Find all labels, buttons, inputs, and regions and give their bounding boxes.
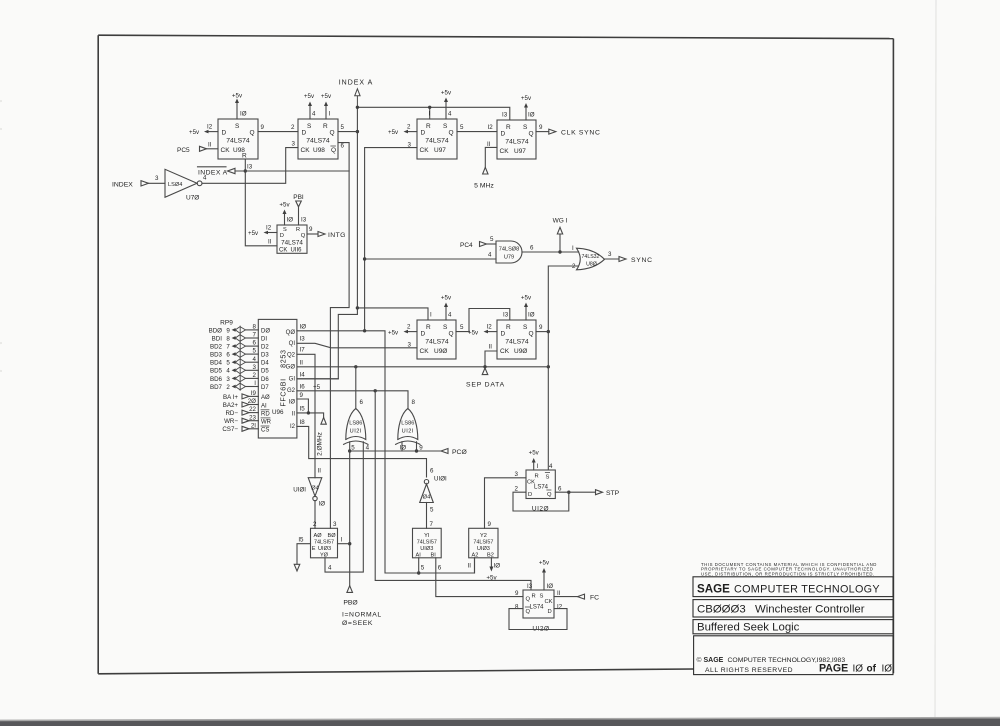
- svg-text:IØ: IØ: [300, 324, 307, 331]
- svg-text:S: S: [546, 475, 550, 481]
- svg-text:9: 9: [226, 327, 230, 334]
- svg-text:S: S: [283, 227, 287, 233]
- svg-text:IØ: IØ: [289, 399, 296, 405]
- svg-text:UIØI: UIØI: [293, 487, 306, 494]
- power +5v U120b S pin10: [539, 560, 553, 591]
- wire U80 in2 vertical bus: [548, 266, 578, 470]
- resistor pack RP9 row BDI: [212, 332, 259, 343]
- svg-text:S: S: [523, 124, 528, 131]
- svg-text:Q2: Q2: [287, 352, 296, 358]
- connector PC0: [441, 449, 467, 456]
- svg-text:S: S: [443, 123, 448, 130]
- svg-text:IØ: IØ: [319, 501, 326, 508]
- wire U101b in from Y1 pin7: [427, 503, 434, 529]
- xor-gate U121a: [344, 409, 368, 445]
- svg-text:I3: I3: [247, 164, 253, 171]
- svg-text:B2: B2: [487, 553, 494, 559]
- svg-text:D7: D7: [261, 385, 269, 391]
- svg-text:9: 9: [539, 124, 543, 131]
- svg-text:5 MHz: 5 MHz: [474, 183, 494, 190]
- svg-text:+5v: +5v: [304, 93, 315, 100]
- svg-text:I3: I3: [300, 336, 306, 343]
- wire Y1 A1 pin5 stub: [419, 558, 425, 573]
- svg-text:CK: CK: [279, 248, 287, 254]
- svg-text:Ø=SEEK: Ø=SEEK: [342, 620, 373, 627]
- wire U90a R1 feed: [357, 308, 428, 320]
- wire Y2 out pin9 to U120a CK: [485, 478, 527, 529]
- resistor pack RP9 row BD3: [210, 348, 258, 359]
- punch hole upper: [0, 101, 2, 129]
- svg-text:R: R: [506, 124, 511, 131]
- wire U103a E enable: [294, 537, 310, 572]
- svg-text:G2: G2: [287, 388, 296, 394]
- svg-text:Q: Q: [250, 130, 255, 137]
- svg-text:D5: D5: [261, 369, 269, 375]
- svg-text:74LS74: 74LS74: [425, 138, 449, 145]
- wire U101a out to A0 pin2: [313, 501, 317, 529]
- svg-text:4: 4: [366, 444, 370, 451]
- wire xor2 in10 stub: [400, 442, 407, 452]
- svg-text:IØ: IØ: [882, 663, 893, 674]
- svg-text:74LSI57: 74LSI57: [473, 540, 493, 546]
- xor-gate U121b: [396, 409, 420, 445]
- svg-text:D: D: [280, 233, 284, 239]
- svg-text:2: 2: [515, 486, 519, 493]
- svg-text:4: 4: [226, 368, 230, 375]
- scanner dark band bottom: [0, 718, 1000, 726]
- svg-text:BDØ: BDØ: [209, 327, 223, 334]
- power +5v U116 S: [279, 202, 293, 226]
- svg-text:+5: +5: [313, 384, 321, 391]
- svg-text:I: I: [254, 380, 256, 387]
- svg-text:BØ: BØ: [328, 533, 337, 539]
- svg-text:II: II: [557, 590, 561, 597]
- svg-text:Q: Q: [547, 492, 552, 498]
- svg-text:+5v: +5v: [521, 95, 532, 102]
- svg-text:3: 3: [515, 471, 519, 478]
- power +5v U98a D12: [189, 124, 218, 137]
- wire AND pin4 line: [365, 252, 496, 260]
- svg-text:D2: D2: [261, 345, 269, 351]
- junction dot R13 on INDEXA-bar line: [244, 169, 247, 172]
- svg-text:CK: CK: [420, 147, 430, 154]
- labels U120a pins 3 2 6: [515, 471, 562, 493]
- power +5v U90a D2: [388, 324, 417, 337]
- svg-text:CK: CK: [500, 148, 510, 155]
- svg-text:5: 5: [253, 348, 257, 355]
- power +5v U98a S: [232, 93, 247, 120]
- svg-text:6: 6: [253, 340, 257, 347]
- svg-text:AØ: AØ: [261, 395, 270, 401]
- svg-text:U97: U97: [514, 148, 526, 155]
- svg-text:I: I: [341, 537, 343, 544]
- svg-text:PC4: PC4: [460, 242, 473, 249]
- resistor pack RP9 row BD7: [210, 380, 258, 391]
- svg-text:U7Ø: U7Ø: [186, 195, 199, 202]
- connector 2.0MHz input: [317, 418, 327, 456]
- svg-text:2: 2: [226, 384, 230, 391]
- svg-text:U97: U97: [434, 147, 446, 154]
- wire U98a R13 down to U116 CK: [245, 159, 277, 246]
- svg-text:I4: I4: [300, 371, 306, 378]
- svg-text:D: D: [421, 331, 426, 338]
- wire G1 stub: [297, 378, 338, 380]
- svg-text:BA I+: BA I+: [223, 394, 238, 401]
- connector CS7− input: [222, 422, 258, 433]
- svg-text:+5v: +5v: [189, 129, 200, 136]
- wire U97a CK bus (Q0 net): [365, 148, 417, 331]
- svg-text:7: 7: [253, 332, 257, 339]
- power +5v U90b S pin10: [521, 295, 535, 321]
- svg-text:3: 3: [333, 521, 337, 528]
- svg-text:I5: I5: [300, 405, 306, 412]
- svg-text:INDEX: INDEX: [112, 181, 133, 188]
- svg-text:2: 2: [291, 124, 295, 131]
- svg-text:D3: D3: [261, 353, 269, 359]
- labels 8253 right pin numbers: [300, 324, 307, 426]
- svg-text:R: R: [323, 123, 328, 130]
- svg-text:+5v: +5v: [441, 90, 452, 97]
- connector PC4 input: [460, 236, 496, 249]
- junction dot sep data: [483, 365, 486, 368]
- svg-text:U98: U98: [313, 147, 325, 154]
- svg-text:Q: Q: [331, 147, 336, 154]
- svg-text:4: 4: [448, 111, 452, 118]
- svg-text:8: 8: [515, 604, 519, 611]
- connector SEP DATA: [466, 368, 505, 389]
- svg-text:CK: CK: [545, 599, 553, 605]
- svg-text:I2: I2: [557, 604, 563, 611]
- svg-text:U9Ø: U9Ø: [434, 348, 447, 355]
- svg-text:CLK SYNC: CLK SYNC: [561, 129, 601, 136]
- svg-text:R: R: [426, 324, 431, 331]
- paper right edge: [935, 0, 936, 719]
- svg-text:PCØ: PCØ: [452, 449, 467, 456]
- svg-text:Ø4: Ø4: [423, 495, 432, 501]
- svg-text:SYNC: SYNC: [631, 257, 653, 264]
- svg-text:II: II: [468, 563, 472, 570]
- svg-text:3: 3: [155, 175, 159, 182]
- svg-text:I2: I2: [266, 225, 272, 232]
- svg-text:74LS74: 74LS74: [281, 240, 303, 247]
- svg-text:Q: Q: [529, 331, 534, 338]
- svg-text:CS: CS: [261, 428, 269, 434]
- label normal seek: [342, 612, 382, 628]
- svg-text:2.ØMHz: 2.ØMHz: [317, 432, 324, 456]
- svg-text:FFC6BI 8253: FFC6BI 8253: [279, 349, 288, 406]
- svg-text:6: 6: [430, 468, 434, 475]
- wire U120b feedback loop: [509, 609, 567, 630]
- svg-text:I: I: [572, 245, 574, 252]
- labels U120b pins: [515, 590, 563, 611]
- svg-text:AI: AI: [261, 403, 267, 409]
- svg-text:GI: GI: [289, 377, 296, 383]
- svg-text:QØ: QØ: [286, 330, 296, 336]
- svg-text:6: 6: [226, 352, 230, 359]
- svg-text:D: D: [222, 130, 227, 137]
- svg-text:II: II: [487, 141, 491, 148]
- svg-text:QI: QI: [289, 341, 296, 347]
- svg-text:I3: I3: [301, 217, 307, 224]
- wire U97a Q5 to U97b D12: [457, 124, 497, 132]
- resistor pack RP9 row BD5: [210, 364, 258, 375]
- svg-text:Q: Q: [449, 130, 454, 137]
- svg-text:SAGE: SAGE: [697, 583, 730, 596]
- svg-text:3: 3: [253, 364, 257, 371]
- svg-text:I2: I2: [488, 124, 494, 131]
- svg-text:Q: Q: [526, 597, 531, 603]
- svg-text:IØ: IØ: [400, 444, 407, 451]
- resistor pack RP9 row BD2: [210, 340, 258, 351]
- svg-text:I: I: [329, 111, 331, 118]
- svg-text:+5v: +5v: [232, 93, 243, 100]
- svg-text:R: R: [426, 123, 431, 130]
- svg-text:2: 2: [313, 521, 317, 528]
- svg-text:5: 5: [421, 565, 425, 572]
- svg-text:©: ©: [697, 656, 702, 664]
- svg-text:23: 23: [249, 414, 256, 421]
- mux U103c Y2: [469, 528, 498, 558]
- wire I2 to U101b output: [297, 426, 427, 477]
- power +5v Y2 B2 pin10: [486, 558, 500, 582]
- wire Q1 to U90a CK: [297, 343, 417, 348]
- svg-text:6: 6: [341, 143, 345, 150]
- svg-text:I3: I3: [527, 583, 533, 590]
- svg-text:II: II: [318, 468, 322, 475]
- svg-text:4: 4: [549, 463, 553, 470]
- svg-text:CK: CK: [500, 348, 510, 355]
- connector RD− input: [225, 406, 258, 417]
- svg-text:D: D: [302, 130, 307, 137]
- title block boxes: [693, 577, 893, 675]
- svg-text:WR−: WR−: [224, 418, 238, 425]
- junction dots INDEX A net: [356, 106, 359, 109]
- flip-flop U97a: [417, 119, 457, 159]
- svg-text:IØ: IØ: [494, 563, 501, 570]
- connector WR− input: [224, 414, 258, 425]
- svg-text:4: 4: [328, 565, 332, 572]
- wire U98b Q5 to INDEX A: [338, 124, 357, 132]
- connector STP output: [555, 490, 619, 497]
- svg-text:5: 5: [430, 507, 434, 514]
- connector FC: [554, 594, 599, 601]
- svg-text:Buffered Seek Logic: Buffered Seek Logic: [697, 622, 800, 634]
- svg-text:74LS74: 74LS74: [226, 138, 250, 145]
- svg-text:IØ: IØ: [853, 663, 864, 674]
- wire U90b CK11 to sep data line: [485, 344, 497, 367]
- svg-text:74LS74: 74LS74: [505, 339, 529, 346]
- svg-text:I2: I2: [290, 424, 296, 430]
- svg-text:+5v: +5v: [321, 93, 332, 100]
- svg-text:USE, DISTRIBUTION, OR REPRODUC: USE, DISTRIBUTION, OR REPRODUCTION IS ST…: [701, 572, 875, 577]
- svg-text:I: I: [429, 111, 431, 118]
- power +5v U98b S pin4: [304, 93, 316, 119]
- svg-text:U79: U79: [504, 255, 514, 261]
- svg-text:UIØ3: UIØ3: [420, 546, 433, 552]
- power +5v U90a S pin4: [441, 295, 452, 321]
- svg-text:IØ: IØ: [528, 312, 535, 319]
- resistor pack RP9 row BDØ: [209, 324, 259, 335]
- svg-text:I3: I3: [502, 112, 508, 119]
- power +5v U97a S pin4: [441, 90, 452, 120]
- svg-text:Q: Q: [301, 233, 306, 239]
- svg-text:9: 9: [539, 324, 543, 331]
- power +5v U116 D12: [248, 225, 277, 238]
- svg-text:WR: WR: [261, 420, 272, 426]
- svg-text:5: 5: [490, 236, 494, 243]
- svg-text:WG I: WG I: [553, 218, 568, 225]
- svg-text:D4: D4: [261, 361, 269, 367]
- inverter U70: [112, 169, 207, 201]
- connector BA2+ input: [223, 398, 259, 409]
- svg-text:S: S: [307, 123, 312, 130]
- power +5v U98b R pin1: [321, 93, 332, 119]
- svg-text:U8Ø: U8Ø: [586, 262, 597, 268]
- svg-text:8: 8: [412, 399, 416, 406]
- junction dot xor1 out on G0: [354, 365, 357, 368]
- svg-text:D6: D6: [261, 377, 269, 383]
- flip-flop U116: [277, 225, 307, 254]
- svg-text:74LS32: 74LS32: [582, 254, 600, 260]
- svg-text:7: 7: [226, 344, 230, 351]
- svg-text:I: I: [430, 312, 432, 319]
- svg-text:PBØ: PBØ: [343, 600, 358, 607]
- svg-text:YØ: YØ: [320, 553, 329, 559]
- svg-text:+5v: +5v: [279, 202, 290, 209]
- flip-flop U97b: [497, 120, 536, 159]
- svg-text:SEP DATA: SEP DATA: [466, 382, 505, 389]
- connector INTG output: [307, 226, 346, 239]
- svg-text:74LS74: 74LS74: [505, 139, 529, 146]
- mux U103a Y0: [311, 521, 338, 559]
- svg-text:R: R: [535, 474, 539, 480]
- wire G0 sep data line: [298, 366, 549, 368]
- svg-text:9: 9: [261, 124, 265, 131]
- svg-text:5: 5: [341, 124, 345, 131]
- svg-text:II: II: [268, 239, 272, 246]
- svg-text:INTG: INTG: [328, 232, 346, 239]
- wire U90b Q9 to sync bus: [536, 324, 548, 332]
- svg-text:BD4: BD4: [210, 360, 223, 367]
- svg-text:D: D: [501, 331, 506, 338]
- svg-text:+5v: +5v: [388, 329, 399, 336]
- connector PB0: [343, 586, 358, 607]
- flip-flop U90b: [497, 320, 536, 359]
- svg-text:9: 9: [515, 590, 519, 597]
- svg-text:BA2+: BA2+: [223, 402, 239, 409]
- flip-flop U120a: [526, 470, 555, 499]
- wire I0 I1 to 2MHz: [297, 399, 324, 418]
- svg-text:II: II: [300, 359, 304, 366]
- svg-text:+5v: +5v: [539, 560, 550, 567]
- or-gate U80: [572, 248, 605, 270]
- svg-text:4: 4: [203, 175, 207, 182]
- wire U98b Qbar6 down: [330, 143, 349, 529]
- svg-text:UIØ3: UIØ3: [318, 546, 331, 552]
- svg-text:UI2I: UI2I: [350, 429, 362, 435]
- svg-text:Q: Q: [330, 130, 335, 137]
- sheet border frame: [98, 35, 893, 674]
- wire U90a Q5 to U90b R13: [456, 309, 510, 332]
- and-gate U79: [496, 241, 522, 263]
- svg-text:BDI: BDI: [212, 335, 223, 342]
- svg-text:CS7−: CS7−: [222, 426, 238, 433]
- punch hole lower: [0, 343, 2, 371]
- svg-text:I9: I9: [251, 390, 257, 397]
- svg-text:Q: Q: [529, 131, 534, 138]
- svg-text:4: 4: [448, 312, 452, 319]
- svg-text:IØ: IØ: [240, 111, 247, 118]
- svg-text:2: 2: [407, 324, 411, 331]
- junction dot feedback STP: [567, 491, 570, 494]
- wire INDEX A vertical bus: [298, 107, 358, 379]
- svg-text:6: 6: [558, 486, 562, 493]
- svg-text:ALL RIGHTS RESERVED: ALL RIGHTS RESERVED: [705, 667, 793, 674]
- svg-text:74LS74: 74LS74: [425, 339, 449, 346]
- svg-text:+5v: +5v: [486, 575, 497, 582]
- svg-text:5: 5: [460, 124, 464, 131]
- svg-text:74LS74: 74LS74: [306, 138, 330, 145]
- svg-text:R: R: [296, 227, 300, 233]
- wire PC0 line: [350, 450, 441, 452]
- svg-text:8: 8: [226, 335, 230, 342]
- junction dot select pin1: [348, 542, 351, 545]
- svg-text:IØ: IØ: [528, 112, 535, 119]
- inverter U101a: [293, 468, 325, 508]
- svg-text:6: 6: [530, 245, 534, 252]
- svg-text:2Ø: 2Ø: [248, 398, 256, 405]
- wire Q0 line: [297, 331, 475, 573]
- flip-flop U90a: [417, 320, 456, 359]
- svg-text:+5v: +5v: [388, 129, 399, 136]
- svg-text:BD5: BD5: [210, 368, 223, 375]
- svg-text:+5v: +5v: [248, 230, 259, 237]
- svg-text:I=NORMAL: I=NORMAL: [342, 612, 382, 619]
- svg-text:2: 2: [407, 124, 411, 131]
- svg-text:RD: RD: [261, 411, 270, 417]
- svg-text:9: 9: [300, 392, 304, 399]
- wire xor1 in4 stub to Y0: [325, 442, 370, 572]
- svg-text:DØ: DØ: [261, 328, 270, 334]
- svg-text:S: S: [235, 123, 240, 130]
- junction dot I0-I1: [307, 411, 310, 414]
- svg-text:BD3: BD3: [210, 352, 223, 359]
- svg-text:I6: I6: [300, 383, 306, 390]
- svg-text:BD7: BD7: [210, 384, 223, 391]
- flip-flop U98a: [218, 119, 258, 160]
- svg-text:of: of: [867, 663, 877, 674]
- flip-flop U98b: [292, 119, 339, 159]
- svg-text:I7: I7: [300, 347, 306, 354]
- svg-text:U96: U96: [272, 409, 284, 416]
- svg-text:LS86: LS86: [401, 421, 414, 427]
- svg-text:II: II: [292, 411, 296, 417]
- svg-text:5: 5: [226, 360, 230, 367]
- svg-text:IØ: IØ: [547, 583, 554, 590]
- wire U70 out to U98b CK3: [202, 148, 298, 184]
- svg-text:5: 5: [351, 444, 355, 451]
- junction dot WG1: [558, 250, 561, 253]
- svg-text:R: R: [506, 324, 511, 331]
- resistor pack RP9 row BD4: [210, 356, 258, 367]
- svg-text:I5: I5: [298, 537, 304, 544]
- svg-text:Q: Q: [449, 331, 454, 338]
- wire PB0 select bus: [349, 451, 351, 586]
- svg-text:9: 9: [488, 521, 492, 528]
- svg-text:74LSI57: 74LSI57: [314, 540, 334, 546]
- svg-text:BD6: BD6: [210, 376, 223, 383]
- svg-text:I2: I2: [487, 324, 493, 331]
